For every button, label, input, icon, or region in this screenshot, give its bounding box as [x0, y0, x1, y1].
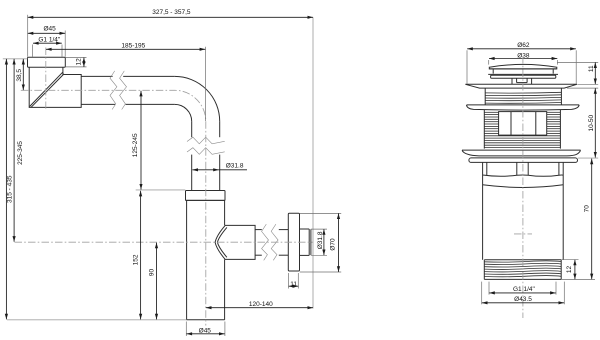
svg-text:Ø70: Ø70 [329, 238, 336, 251]
svg-text:125-245: 125-245 [132, 133, 139, 157]
svg-text:Ø31.8: Ø31.8 [226, 163, 244, 170]
svg-text:315 - 435: 315 - 435 [6, 175, 13, 203]
svg-text:Ø38: Ø38 [517, 53, 530, 60]
svg-text:70: 70 [584, 205, 591, 213]
svg-text:12: 12 [566, 266, 573, 274]
svg-text:Ø45: Ø45 [199, 328, 212, 335]
svg-text:327,5 - 357,5: 327,5 - 357,5 [152, 9, 191, 16]
svg-text:11: 11 [290, 281, 297, 288]
svg-text:38,5: 38,5 [16, 69, 23, 82]
svg-text:12: 12 [75, 58, 82, 66]
svg-text:Ø43.5: Ø43.5 [514, 296, 532, 303]
svg-text:Ø31.8: Ø31.8 [317, 231, 324, 249]
svg-text:185-195: 185-195 [121, 43, 145, 50]
svg-text:10-50: 10-50 [588, 115, 595, 132]
svg-text:120-140: 120-140 [249, 301, 273, 308]
svg-text:152: 152 [133, 254, 140, 265]
svg-text:Ø62: Ø62 [517, 42, 530, 49]
svg-text:G1 1/4": G1 1/4" [38, 37, 61, 44]
svg-text:90: 90 [148, 269, 155, 277]
svg-text:G1 1/4": G1 1/4" [513, 286, 536, 293]
svg-text:Ø45: Ø45 [43, 26, 56, 33]
svg-text:225-345: 225-345 [17, 141, 24, 165]
svg-text:11: 11 [588, 65, 595, 72]
